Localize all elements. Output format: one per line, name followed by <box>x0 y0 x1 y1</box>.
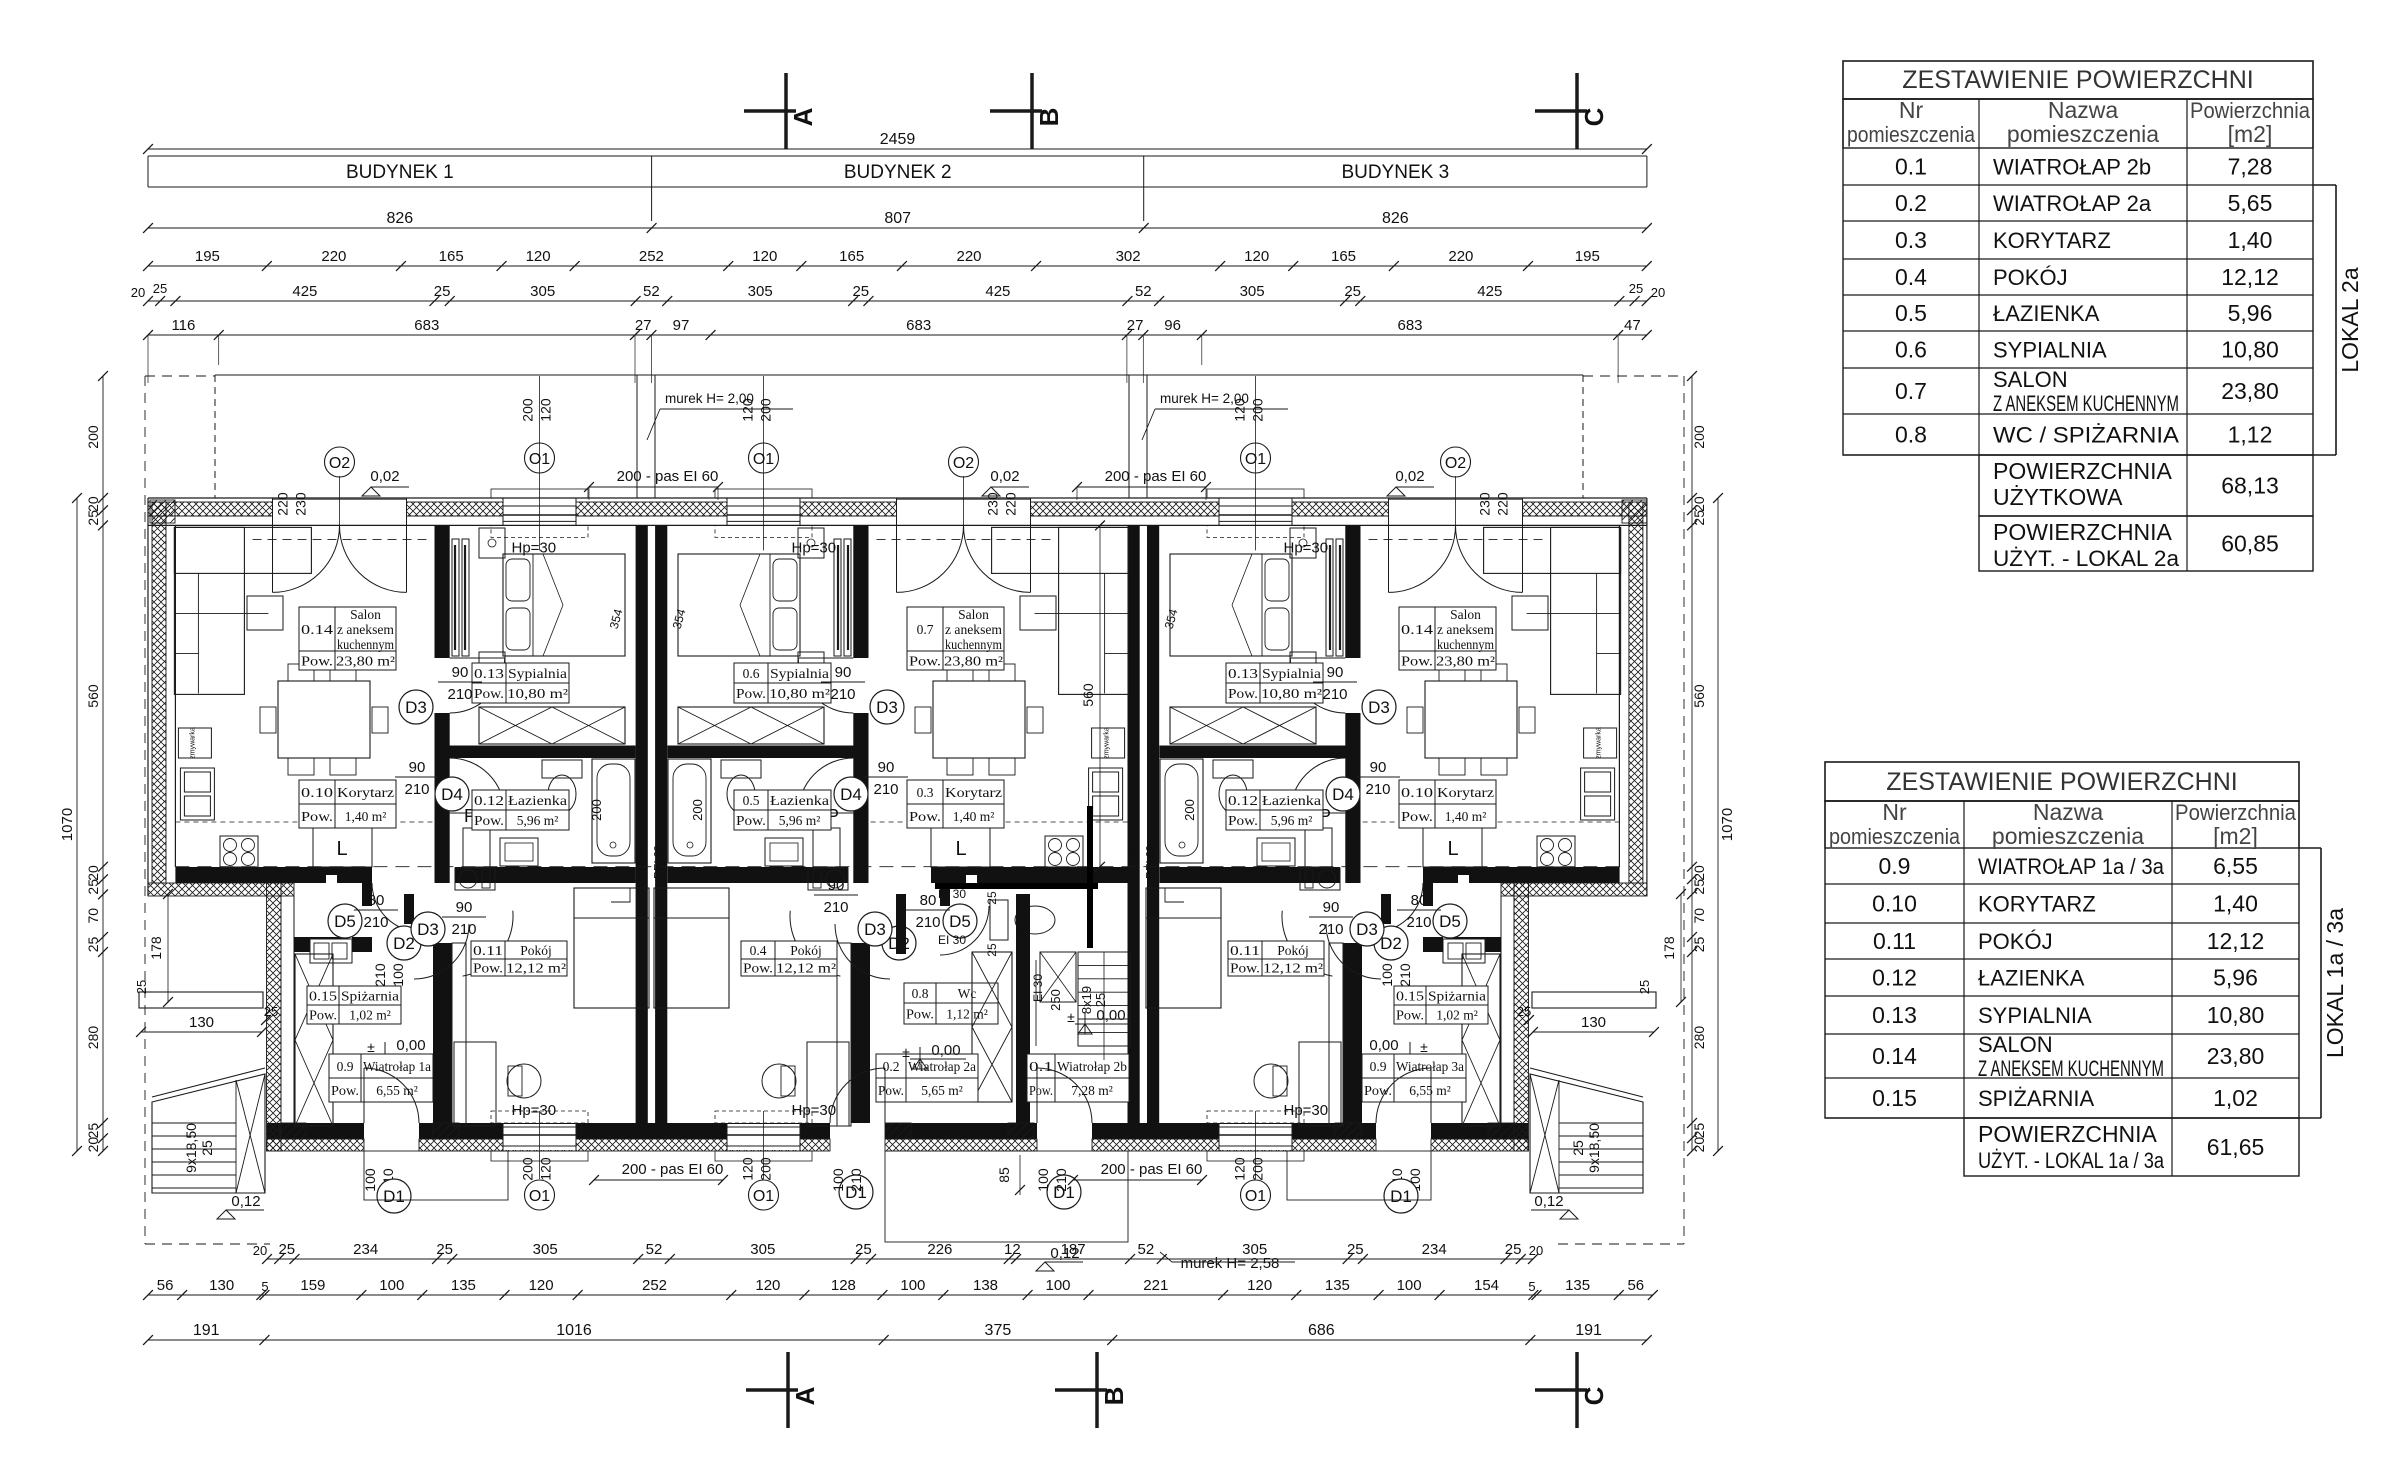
svg-text:0.14: 0.14 <box>301 622 333 637</box>
svg-text:120: 120 <box>740 1157 756 1181</box>
svg-text:220: 220 <box>321 248 346 265</box>
svg-text:210: 210 <box>1318 921 1343 938</box>
svg-text:WIATROŁAP 2a: WIATROŁAP 2a <box>1993 191 2152 216</box>
svg-text:Sypialnia: Sypialnia <box>508 666 567 681</box>
svg-text:SALON: SALON <box>1978 1032 2053 1057</box>
svg-text:25: 25 <box>985 891 999 905</box>
svg-text:0.12: 0.12 <box>1872 965 1917 991</box>
svg-text:96: 96 <box>1164 317 1181 334</box>
svg-text:pomieszczenia: pomieszczenia <box>1992 823 2144 849</box>
svg-text:z aneksem: z aneksem <box>1437 622 1494 637</box>
svg-text:Łazienka: Łazienka <box>770 793 829 808</box>
svg-text:Hp=30: Hp=30 <box>1284 1102 1329 1119</box>
svg-text:56: 56 <box>157 1277 174 1294</box>
svg-text:0,00: 0,00 <box>931 1042 960 1059</box>
svg-text:Pow.: Pow. <box>906 1007 934 1022</box>
svg-text:210: 210 <box>363 914 388 931</box>
svg-text:O1: O1 <box>1245 1188 1266 1205</box>
svg-text:25: 25 <box>1637 980 1652 994</box>
svg-text:0.5: 0.5 <box>743 793 760 808</box>
svg-text:826: 826 <box>386 210 413 227</box>
svg-text:138: 138 <box>973 1277 998 1294</box>
svg-text:25: 25 <box>1093 993 1108 1007</box>
svg-text:120: 120 <box>1232 1157 1248 1181</box>
svg-text:130: 130 <box>1581 1014 1606 1031</box>
svg-text:ŁAZIENKA: ŁAZIENKA <box>1993 301 2100 326</box>
svg-text:5,96: 5,96 <box>2213 965 2258 991</box>
svg-text:0.10: 0.10 <box>1872 891 1917 917</box>
svg-text:80: 80 <box>920 892 937 909</box>
svg-text:5,96 m²: 5,96 m² <box>1271 813 1313 828</box>
svg-text:210: 210 <box>823 899 848 916</box>
svg-text:10,80 m²: 10,80 m² <box>1261 686 1322 701</box>
svg-text:200: 200 <box>1691 425 1707 449</box>
svg-text:210: 210 <box>830 686 855 703</box>
svg-text:1070: 1070 <box>1719 808 1736 841</box>
svg-text:0.6: 0.6 <box>1895 337 1927 363</box>
svg-text:210: 210 <box>848 1168 864 1192</box>
svg-text:683: 683 <box>1397 317 1422 334</box>
svg-text:0.3: 0.3 <box>1895 227 1927 253</box>
svg-text:25: 25 <box>1691 879 1707 895</box>
svg-text:0,12: 0,12 <box>1534 1193 1563 1210</box>
svg-text:200: 200 <box>1182 799 1197 821</box>
svg-text:135: 135 <box>1565 1277 1590 1294</box>
svg-text:REI 60: REI 60 <box>1145 845 1157 879</box>
svg-text:6,55 m²: 6,55 m² <box>1409 1083 1451 1098</box>
svg-text:305: 305 <box>533 1241 558 1258</box>
svg-text:kuchennym: kuchennym <box>945 637 1002 652</box>
svg-text:25: 25 <box>278 1241 295 1258</box>
svg-text:1,40 m²: 1,40 m² <box>1445 809 1487 824</box>
svg-text:425: 425 <box>292 283 317 300</box>
svg-text:90: 90 <box>828 877 845 894</box>
svg-text:WC / SPIŻARNIA: WC / SPIŻARNIA <box>1993 423 2179 448</box>
svg-text:Łazienka: Łazienka <box>1262 793 1321 808</box>
svg-text:UŻYTKOWA: UŻYTKOWA <box>1993 484 2123 510</box>
svg-text:SPIŻARNIA: SPIŻARNIA <box>1978 1086 2094 1111</box>
svg-text:0.13: 0.13 <box>1228 666 1258 681</box>
svg-text:90: 90 <box>1327 664 1344 681</box>
svg-text:12,12: 12,12 <box>2207 928 2265 954</box>
svg-text:0.3: 0.3 <box>917 785 934 800</box>
svg-text:2459: 2459 <box>880 131 916 148</box>
svg-text:pomieszczenia: pomieszczenia <box>1829 824 1961 849</box>
svg-text:±: ± <box>1067 1009 1075 1025</box>
svg-text:234: 234 <box>353 1241 378 1258</box>
svg-text:210: 210 <box>1406 914 1431 931</box>
svg-text:56: 56 <box>1627 1277 1644 1294</box>
svg-text:0,00: 0,00 <box>1369 1037 1398 1054</box>
svg-text:25: 25 <box>85 879 101 895</box>
svg-text:5: 5 <box>1528 1279 1535 1294</box>
svg-text:0.7: 0.7 <box>917 622 934 637</box>
svg-text:EI 30: EI 30 <box>938 933 966 947</box>
svg-text:Pow.: Pow. <box>1364 1083 1392 1098</box>
svg-text:WIATROŁAP 1a / 3a: WIATROŁAP 1a / 3a <box>1978 854 2165 879</box>
svg-text:Łazienka: Łazienka <box>508 793 567 808</box>
svg-text:Pow.: Pow. <box>736 686 766 701</box>
svg-text:D5: D5 <box>334 912 356 931</box>
svg-text:0.1: 0.1 <box>1029 1059 1053 1074</box>
svg-text:0,12: 0,12 <box>231 1193 260 1210</box>
svg-text:90: 90 <box>456 899 473 916</box>
svg-text:Pow.: Pow. <box>1029 1083 1053 1098</box>
svg-text:zmywarka: zmywarka <box>1104 727 1111 759</box>
svg-text:SYPIALNIA: SYPIALNIA <box>1978 1003 2092 1028</box>
svg-text:425: 425 <box>985 283 1010 300</box>
svg-text:60,85: 60,85 <box>2221 531 2279 557</box>
svg-text:210: 210 <box>451 921 476 938</box>
svg-text:683: 683 <box>414 317 439 334</box>
svg-text:200: 200 <box>85 425 101 449</box>
svg-text:305: 305 <box>1242 1241 1267 1258</box>
svg-text:0.15: 0.15 <box>309 989 337 1004</box>
svg-text:200: 200 <box>1250 398 1266 422</box>
svg-text:52: 52 <box>1138 1241 1155 1258</box>
svg-text:12,12 m²: 12,12 m² <box>506 961 566 976</box>
svg-text:100: 100 <box>1045 1277 1070 1294</box>
svg-text:0.4: 0.4 <box>1895 264 1927 290</box>
svg-text:120: 120 <box>1247 1277 1272 1294</box>
svg-text:200: 200 <box>520 1157 536 1181</box>
svg-text:195: 195 <box>195 248 220 265</box>
svg-text:9x18,50: 9x18,50 <box>1586 1123 1602 1173</box>
svg-text:12,12: 12,12 <box>2221 264 2279 290</box>
svg-text:Spiżarnia: Spiżarnia <box>1428 989 1486 1004</box>
svg-text:305: 305 <box>748 283 773 300</box>
svg-text:25: 25 <box>434 283 451 300</box>
svg-text:90: 90 <box>409 759 426 776</box>
svg-text:Korytarz: Korytarz <box>1437 785 1494 800</box>
svg-text:Wiatrołap 2b: Wiatrołap 2b <box>1057 1059 1127 1074</box>
svg-text:0.9: 0.9 <box>337 1059 354 1074</box>
svg-text:0,02: 0,02 <box>370 468 399 485</box>
svg-text:85: 85 <box>996 1167 1012 1183</box>
svg-text:0.14: 0.14 <box>1401 622 1433 637</box>
svg-text:0.11: 0.11 <box>1230 943 1260 958</box>
svg-text:0.9: 0.9 <box>1370 1059 1387 1074</box>
svg-text:165: 165 <box>439 248 464 265</box>
svg-text:Z ANEKSEM KUCHENNYM: Z ANEKSEM KUCHENNYM <box>1993 391 2179 416</box>
svg-text:130: 130 <box>209 1277 234 1294</box>
svg-text:1,02 m²: 1,02 m² <box>349 1008 391 1023</box>
svg-text:5: 5 <box>261 1279 268 1294</box>
svg-text:234: 234 <box>1422 1241 1447 1258</box>
svg-text:D1: D1 <box>383 1187 405 1206</box>
svg-text:LOKAL 2a: LOKAL 2a <box>2337 267 2363 372</box>
svg-text:Nr: Nr <box>1882 799 1907 825</box>
svg-text:UŻYT. - LOKAL 1a / 3a: UŻYT. - LOKAL 1a / 3a <box>1978 1148 2165 1173</box>
svg-text:O1: O1 <box>1245 451 1266 468</box>
svg-text:BUDYNEK 2: BUDYNEK 2 <box>844 162 952 183</box>
svg-text:120: 120 <box>752 248 777 265</box>
svg-text:80: 80 <box>368 892 385 909</box>
svg-text:159: 159 <box>300 1277 325 1294</box>
svg-text:68,13: 68,13 <box>2221 473 2279 499</box>
svg-text:Pow.: Pow. <box>736 813 766 828</box>
svg-text:Wiatrołap 3a: Wiatrołap 3a <box>1396 1059 1464 1074</box>
svg-text:D4: D4 <box>1332 785 1354 804</box>
svg-text:130: 130 <box>189 1014 214 1031</box>
svg-text:O2: O2 <box>953 455 974 472</box>
svg-text:Hp=30: Hp=30 <box>512 539 557 556</box>
svg-text:23,80 m²: 23,80 m² <box>336 654 395 669</box>
svg-text:200: 200 <box>758 398 774 422</box>
svg-text:LOKAL 1a / 3a: LOKAL 1a / 3a <box>2322 908 2348 1058</box>
svg-text:REI 60: REI 60 <box>1127 845 1139 879</box>
svg-text:20: 20 <box>253 1243 267 1258</box>
svg-text:D3: D3 <box>1356 920 1378 939</box>
svg-text:BUDYNEK 3: BUDYNEK 3 <box>1341 162 1449 183</box>
svg-text:0.14: 0.14 <box>1872 1043 1917 1069</box>
svg-text:±: ± <box>367 1039 375 1055</box>
svg-text:90: 90 <box>452 664 469 681</box>
svg-text:POKÓJ: POKÓJ <box>1978 929 2053 954</box>
svg-text:10,80: 10,80 <box>2207 1002 2265 1028</box>
svg-text:97: 97 <box>673 317 690 334</box>
svg-text:23,80 m²: 23,80 m² <box>1436 654 1495 669</box>
svg-text:20: 20 <box>1529 1243 1543 1258</box>
svg-text:210: 210 <box>1365 781 1390 798</box>
svg-text:Pokój: Pokój <box>790 943 822 958</box>
svg-text:1,40: 1,40 <box>2213 891 2258 917</box>
svg-text:SALON: SALON <box>1993 367 2068 392</box>
svg-text:5,65: 5,65 <box>2228 190 2273 216</box>
svg-text:25: 25 <box>1347 1241 1364 1258</box>
svg-text:826: 826 <box>1382 210 1409 227</box>
svg-text:1070: 1070 <box>59 808 76 841</box>
svg-text:ZESTAWIENIE POWIERZCHNI: ZESTAWIENIE POWIERZCHNI <box>1886 768 2237 796</box>
svg-text:807: 807 <box>884 210 911 227</box>
svg-text:178: 178 <box>1661 936 1677 960</box>
svg-text:±: ± <box>1420 1039 1428 1055</box>
svg-text:90: 90 <box>1014 923 1029 937</box>
svg-text:25: 25 <box>199 1140 215 1156</box>
svg-text:POKÓJ: POKÓJ <box>1993 265 2068 290</box>
svg-text:25: 25 <box>85 510 101 526</box>
svg-text:B: B <box>1034 108 1064 127</box>
svg-text:1016: 1016 <box>556 1322 592 1339</box>
svg-text:210: 210 <box>372 963 388 987</box>
svg-text:25: 25 <box>1517 1004 1531 1019</box>
svg-text:305: 305 <box>530 283 555 300</box>
svg-text:pomieszczenia: pomieszczenia <box>1847 122 1976 147</box>
svg-text:Hp=30: Hp=30 <box>792 539 837 556</box>
svg-text:Powierzchnia: Powierzchnia <box>2190 98 2311 123</box>
svg-text:D2: D2 <box>1380 934 1402 953</box>
svg-text:90: 90 <box>1323 899 1340 916</box>
svg-text:80: 80 <box>1411 892 1428 909</box>
svg-text:KORYTARZ: KORYTARZ <box>1993 228 2111 253</box>
svg-text:9x18,50: 9x18,50 <box>183 1123 199 1173</box>
svg-text:Hp=30: Hp=30 <box>1284 539 1329 556</box>
svg-text:5,65 m²: 5,65 m² <box>921 1083 963 1098</box>
svg-text:100: 100 <box>379 1277 404 1294</box>
svg-text:O1: O1 <box>529 451 550 468</box>
svg-text:20: 20 <box>1691 1137 1707 1153</box>
svg-text:120: 120 <box>1232 398 1248 422</box>
svg-text:Salon: Salon <box>350 607 381 622</box>
svg-text:23,80 m²: 23,80 m² <box>944 654 1003 669</box>
svg-text:D1: D1 <box>1390 1187 1412 1206</box>
svg-text:20: 20 <box>1691 496 1707 512</box>
svg-text:Pow.: Pow. <box>878 1083 904 1098</box>
svg-text:100: 100 <box>1397 1277 1422 1294</box>
svg-text:Spiżarnia: Spiżarnia <box>341 989 399 1004</box>
svg-text:20: 20 <box>1691 865 1707 881</box>
svg-text:220: 220 <box>1495 492 1511 516</box>
svg-text:116: 116 <box>171 317 195 334</box>
svg-text:EI 30: EI 30 <box>1031 974 1045 1002</box>
svg-text:0,00: 0,00 <box>1096 1007 1125 1024</box>
svg-text:100: 100 <box>1379 963 1395 987</box>
svg-text:25: 25 <box>436 1241 453 1258</box>
svg-text:0.10: 0.10 <box>301 785 333 800</box>
svg-text:210: 210 <box>1322 686 1347 703</box>
svg-text:L: L <box>1447 838 1458 860</box>
svg-text:L: L <box>336 838 347 860</box>
svg-text:0.13: 0.13 <box>1872 1002 1917 1028</box>
svg-text:ZESTAWIENIE POWIERZCHNI: ZESTAWIENIE POWIERZCHNI <box>1902 66 2253 94</box>
svg-text:20: 20 <box>1651 285 1665 300</box>
svg-text:±: ± <box>902 1044 910 1060</box>
svg-text:25: 25 <box>1505 1241 1522 1258</box>
svg-text:25: 25 <box>1629 281 1643 296</box>
svg-text:100: 100 <box>830 1168 846 1192</box>
svg-text:90: 90 <box>1370 759 1387 776</box>
svg-text:25: 25 <box>1691 1123 1707 1139</box>
svg-text:210: 210 <box>1397 963 1413 987</box>
svg-text:pomieszczenia: pomieszczenia <box>2007 121 2159 147</box>
svg-text:560: 560 <box>1691 684 1707 708</box>
svg-text:230: 230 <box>293 492 309 516</box>
svg-text:200 - pas EI 60: 200 - pas EI 60 <box>622 1161 724 1178</box>
svg-text:Z ANEKSEM KUCHENNYM: Z ANEKSEM KUCHENNYM <box>1978 1056 2164 1081</box>
svg-text:7,28: 7,28 <box>2228 154 2273 180</box>
svg-text:200 - pas EI 60: 200 - pas EI 60 <box>1105 468 1207 485</box>
svg-text:10,80 m²: 10,80 m² <box>507 686 568 701</box>
svg-text:0.13: 0.13 <box>474 666 504 681</box>
svg-text:5,96: 5,96 <box>2228 300 2273 326</box>
svg-text:1,40: 1,40 <box>2228 227 2273 253</box>
svg-text:D5: D5 <box>1439 912 1461 931</box>
svg-text:200 - pas EI 60: 200 - pas EI 60 <box>1101 1161 1203 1178</box>
svg-text:D3: D3 <box>1368 698 1390 717</box>
svg-text:191: 191 <box>1575 1322 1602 1339</box>
svg-text:120: 120 <box>529 1277 554 1294</box>
svg-text:Pow.: Pow. <box>1228 686 1258 701</box>
svg-text:REI 60: REI 60 <box>635 845 647 879</box>
svg-text:Salon: Salon <box>1450 607 1481 622</box>
svg-text:120: 120 <box>740 398 756 422</box>
svg-text:280: 280 <box>85 1026 101 1050</box>
svg-text:Pow.: Pow. <box>1401 809 1433 824</box>
svg-text:kuchennym: kuchennym <box>1437 637 1494 652</box>
svg-text:128: 128 <box>831 1277 856 1294</box>
svg-text:Pow.: Pow. <box>1401 654 1433 669</box>
svg-text:SYPIALNIA: SYPIALNIA <box>1993 338 2107 363</box>
svg-text:25: 25 <box>1344 283 1361 300</box>
svg-text:0,02: 0,02 <box>990 468 1019 485</box>
svg-text:0,00: 0,00 <box>396 1037 425 1054</box>
svg-text:20: 20 <box>131 285 145 300</box>
svg-text:0.12: 0.12 <box>474 793 504 808</box>
svg-text:B: B <box>1099 1387 1129 1406</box>
svg-text:UŻYT. - LOKAL 2a: UŻYT. - LOKAL 2a <box>1993 546 2180 571</box>
svg-text:[m2]: [m2] <box>2228 121 2273 147</box>
svg-text:25: 25 <box>985 943 999 957</box>
svg-text:252: 252 <box>642 1277 667 1294</box>
svg-text:10,80 m²: 10,80 m² <box>769 686 830 701</box>
svg-text:20: 20 <box>85 1137 101 1153</box>
svg-text:200: 200 <box>1250 1157 1266 1181</box>
svg-text:Salon: Salon <box>958 607 989 622</box>
svg-text:Hp=30: Hp=30 <box>512 1102 557 1119</box>
svg-text:221: 221 <box>1143 1277 1168 1294</box>
svg-text:6,55: 6,55 <box>2213 853 2258 879</box>
svg-text:Powierzchnia: Powierzchnia <box>2175 800 2297 825</box>
svg-text:kuchennym: kuchennym <box>337 637 394 652</box>
svg-text:5,96 m²: 5,96 m² <box>779 813 821 828</box>
svg-text:D2: D2 <box>393 934 415 953</box>
svg-text:0.12: 0.12 <box>1228 793 1258 808</box>
svg-text:61,65: 61,65 <box>2207 1134 2265 1160</box>
svg-text:Pow.: Pow. <box>1396 1008 1424 1023</box>
svg-text:120: 120 <box>1244 248 1269 265</box>
svg-text:WIATROŁAP 2b: WIATROŁAP 2b <box>1993 155 2151 180</box>
svg-text:686: 686 <box>1308 1322 1335 1339</box>
svg-text:Pow.: Pow. <box>473 961 503 976</box>
svg-text:25: 25 <box>134 980 149 994</box>
svg-text:1,40 m²: 1,40 m² <box>953 809 995 824</box>
svg-text:90: 90 <box>835 664 852 681</box>
svg-text:0.11: 0.11 <box>1873 928 1916 954</box>
svg-text:[m2]: [m2] <box>2213 823 2258 849</box>
svg-text:0.1: 0.1 <box>1895 154 1927 180</box>
svg-text:191: 191 <box>193 1322 220 1339</box>
svg-text:z aneksem: z aneksem <box>945 622 1002 637</box>
svg-text:250: 250 <box>1048 989 1063 1011</box>
svg-text:Wiatrołap 1a: Wiatrołap 1a <box>363 1059 431 1074</box>
svg-text:1,02 m²: 1,02 m² <box>1436 1008 1478 1023</box>
svg-text:Nazwa: Nazwa <box>2048 97 2119 123</box>
svg-text:C: C <box>1579 1386 1609 1405</box>
svg-text:0.5: 0.5 <box>1895 300 1927 326</box>
svg-text:120: 120 <box>538 1157 554 1181</box>
svg-text:165: 165 <box>839 248 864 265</box>
svg-text:POWIERZCHNIA: POWIERZCHNIA <box>1993 458 2173 484</box>
svg-text:25: 25 <box>1570 1140 1586 1156</box>
svg-text:Hp=30: Hp=30 <box>792 1102 837 1119</box>
svg-text:0.7: 0.7 <box>1895 378 1927 404</box>
svg-text:Korytarz: Korytarz <box>337 785 394 800</box>
svg-text:Pow.: Pow. <box>909 654 941 669</box>
svg-text:187: 187 <box>1061 1241 1086 1258</box>
svg-text:Korytarz: Korytarz <box>945 785 1002 800</box>
svg-text:120: 120 <box>755 1277 780 1294</box>
svg-text:0.4: 0.4 <box>750 943 767 958</box>
svg-text:120: 120 <box>538 398 554 422</box>
svg-text:Pow.: Pow. <box>474 813 504 828</box>
svg-text:REI 60: REI 60 <box>653 845 665 879</box>
svg-text:560: 560 <box>85 684 101 708</box>
svg-text:178: 178 <box>148 936 164 960</box>
svg-text:10,80: 10,80 <box>2221 337 2279 363</box>
svg-text:Pow.: Pow. <box>909 809 941 824</box>
svg-text:Pow.: Pow. <box>331 1083 359 1098</box>
svg-text:KORYTARZ: KORYTARZ <box>1978 892 2096 917</box>
